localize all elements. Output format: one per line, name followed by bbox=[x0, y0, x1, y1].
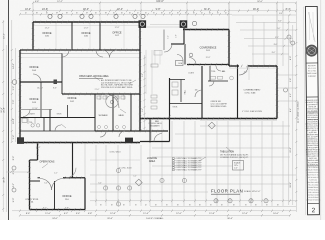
dim string y109 bbox=[20, 109, 52, 111]
svg-text:30′-4″: 30′-4″ bbox=[227, 218, 233, 220]
svg-text:8′-4″: 8′-4″ bbox=[286, 8, 291, 11]
corridor south wall west bbox=[20, 53, 62, 55]
closet north wall bbox=[170, 79, 186, 81]
svg-text:4′-6″: 4′-6″ bbox=[35, 1, 40, 3]
left band tag circle 1 bbox=[12, 166, 16, 170]
door arc toilet north bbox=[216, 66, 221, 71]
hall south partition bbox=[170, 103, 203, 105]
svg-text:OFFICE: OFFICE bbox=[29, 98, 38, 101]
bottom-left block south wall bbox=[30, 209, 86, 211]
entry interior wall y44 bbox=[171, 43, 184, 45]
west wall jog bbox=[30, 159, 38, 161]
svg-text:TOIL.: TOIL. bbox=[29, 122, 34, 124]
svg-text:REVISION: REVISION bbox=[308, 65, 316, 67]
conference east exterior wall bbox=[228, 30, 230, 67]
diagonal pencil mark in top box bbox=[308, 12, 315, 42]
svg-text:OFFICE: OFFICE bbox=[112, 31, 121, 34]
heading underline bbox=[79, 77, 103, 79]
right dimension ticks bbox=[295, 29, 297, 31]
entry tag circle bbox=[189, 53, 193, 57]
utility north wall stub bbox=[30, 180, 41, 182]
svg-text:4′-2″: 4′-2″ bbox=[54, 173, 58, 175]
washroom north wall y117.5 bbox=[20, 117, 95, 119]
office 103 door arc bbox=[33, 74, 41, 82]
joint bbox=[37, 142, 39, 145]
main south wall west portion bbox=[20, 142, 140, 144]
svg-text:1′-0″: 1′-0″ bbox=[234, 168, 238, 170]
door arc east wing room bbox=[195, 90, 202, 97]
svg-text:LUNCH: LUNCH bbox=[153, 118, 161, 120]
svg-text:4′-0″: 4′-0″ bbox=[244, 72, 248, 74]
svg-text:OFFICE BLDG: OFFICE BLDG bbox=[308, 189, 319, 191]
corridor south wall west extension bbox=[62, 130, 95, 132]
operations room walls bbox=[37, 143, 39, 161]
svg-text:46′-2″: 46′-2″ bbox=[253, 8, 259, 11]
svg-text:8′-6″: 8′-6″ bbox=[53, 87, 57, 89]
closet wall x41 bbox=[40, 82, 42, 118]
closet line 2 east of spine bbox=[151, 50, 153, 94]
svg-text:TOIL.: TOIL. bbox=[211, 71, 216, 73]
window tag circles above top wall bbox=[48, 14, 52, 18]
door arc wall y109 bbox=[23, 110, 30, 117]
lunch counter fixtures bbox=[151, 64, 158, 67]
double door arc left leaf bbox=[40, 179, 52, 191]
west wall door tag circle bbox=[12, 80, 17, 85]
bottom dimension line 1 bbox=[90, 200, 296, 202]
left band tag circle 2 bbox=[12, 188, 16, 192]
closet shelf rect bbox=[154, 51, 162, 56]
svg-text:22′-4″: 22′-4″ bbox=[117, 8, 123, 11]
double door arc right leaf bbox=[52, 179, 64, 191]
bottom dimension line 2 bbox=[150, 205, 296, 207]
svg-text:9′-0″: 9′-0″ bbox=[13, 198, 15, 203]
hall east wall x169.5 bbox=[169, 78, 171, 142]
grid leader above conference bbox=[228, 3, 230, 30]
svg-text:COATS: COATS bbox=[188, 72, 195, 75]
porch roof line 2 bbox=[147, 26, 180, 28]
conference south wall bbox=[187, 64, 229, 66]
svg-text:CONFERENCE: CONFERENCE bbox=[200, 46, 217, 49]
wall hatch ticks on exterior walls bbox=[34, 21, 35, 24]
svg-text:106: 106 bbox=[195, 90, 198, 92]
top dimension line 3 bbox=[20, 13, 232, 15]
svg-text:30′-0″: 30′-0″ bbox=[4, 177, 6, 183]
east wing sill line bbox=[200, 120, 277, 122]
svg-text:SUITE 204: SUITE 204 bbox=[309, 179, 317, 181]
restroom block north wall bbox=[62, 93, 140, 95]
svg-text:8′-6″: 8′-6″ bbox=[26, 213, 31, 215]
svg-text:8′-0″: 8′-0″ bbox=[278, 21, 282, 23]
title strip internal divider a bbox=[307, 111, 319, 113]
svg-text:26′-4″: 26′-4″ bbox=[4, 107, 6, 113]
svg-text:OFFICE: OFFICE bbox=[81, 32, 90, 35]
entry walk line 2 bbox=[159, 50, 161, 65]
svg-text:HALL: HALL bbox=[184, 90, 187, 95]
top overall dimension line bbox=[33, 2, 296, 4]
title strip faint texture above seal bbox=[308, 12, 310, 40]
top dimension tick marks bbox=[32, 10, 34, 13]
column circle large at corridor bbox=[106, 95, 118, 107]
title block divider 4 bbox=[307, 202, 319, 204]
svg-text:31′-0″: 31′-0″ bbox=[204, 8, 210, 11]
faint line left of title strip bbox=[304, 7, 306, 215]
svg-text:TEL 263-8844: TEL 263-8844 bbox=[308, 184, 318, 186]
double door arc right bbox=[110, 50, 118, 58]
svg-text:OPERATIONS: OPERATIONS bbox=[40, 160, 55, 163]
svg-text:JAN.: JAN. bbox=[221, 70, 226, 73]
interior dimension string along spine bbox=[144, 55, 146, 130]
svg-text:7′-0″: 7′-0″ bbox=[13, 100, 15, 105]
unit 1 circle bbox=[140, 22, 144, 26]
svg-text:52′-0″: 52′-0″ bbox=[257, 1, 263, 3]
svg-text:111: 111 bbox=[31, 201, 34, 203]
restroom fixtures bbox=[97, 96, 101, 99]
svg-text:12′-2″: 12′-2″ bbox=[57, 1, 63, 3]
svg-text:6′-2″: 6′-2″ bbox=[290, 93, 292, 97]
entry vestibule rect and arc bbox=[176, 61, 184, 66]
svg-text:CHECKED: CHECKED bbox=[308, 76, 317, 78]
svg-text:2′-8″: 2′-8″ bbox=[176, 34, 178, 38]
door arc above south wall bbox=[66, 168, 76, 178]
mechanical unit block 2 bbox=[180, 20, 188, 28]
svg-text:14′-6″: 14′-6″ bbox=[13, 63, 15, 69]
sheet left border line bbox=[8, 0, 10, 220]
yard west edge faint bbox=[84, 143, 86, 179]
toilet partition x210 bbox=[209, 66, 211, 81]
sheet right paper edge bbox=[320, 0, 322, 220]
svg-text:17′-10″: 17′-10″ bbox=[32, 108, 38, 110]
faint verticals top-right bbox=[276, 3, 278, 66]
top dimension ticks row1 bbox=[32, 2, 34, 5]
window centerline office 107 bbox=[123, 22, 125, 50]
svg-text:SEE FINISH SCHED.: SEE FINISH SCHED. bbox=[211, 106, 228, 108]
svg-text:18′-0″: 18′-0″ bbox=[83, 8, 89, 11]
grid leader above entry bbox=[186, 3, 188, 30]
patio west wall bbox=[237, 65, 239, 119]
svg-text:SUITE 204: SUITE 204 bbox=[309, 158, 317, 160]
top dimension line 2 bbox=[20, 10, 296, 12]
svg-text:STOR: STOR bbox=[57, 114, 62, 116]
svg-text:8′-4″: 8′-4″ bbox=[290, 108, 292, 112]
svg-text:MEN: MEN bbox=[119, 115, 124, 117]
svg-text:OFFICE BLDG: OFFICE BLDG bbox=[307, 141, 318, 143]
svg-text:5′-6″: 5′-6″ bbox=[13, 86, 15, 91]
svg-text:COVERED PATIO: COVERED PATIO bbox=[244, 88, 261, 91]
svg-text:16′-4″: 16′-4″ bbox=[36, 147, 41, 149]
door dim line NE bbox=[248, 66, 250, 80]
corridor south wall far west bbox=[20, 130, 62, 132]
west office east wall x62 bbox=[61, 54, 63, 95]
door arc men bbox=[119, 131, 125, 137]
corridor floor line bbox=[20, 57, 140, 59]
svg-text:LNDRY: LNDRY bbox=[29, 114, 36, 116]
entry walk line 1 bbox=[154, 50, 156, 65]
utility/office partition bbox=[54, 181, 56, 210]
svg-text:12′-8″: 12′-8″ bbox=[115, 27, 120, 29]
svg-text:6′-2″: 6′-2″ bbox=[64, 213, 69, 215]
left dimension line 2 bbox=[5, 45, 7, 212]
counter line lunch room bbox=[150, 120, 152, 140]
northeast wing door arc bbox=[239, 66, 248, 75]
svg-text:104′-6″ OVERALL: 104′-6″ OVERALL bbox=[146, 217, 164, 220]
svg-text:4″ CONC. SLAB W/ WWM: 4″ CONC. SLAB W/ WWM bbox=[242, 110, 262, 113]
corridor north wall / office row south wall bbox=[20, 49, 140, 51]
title block outer box bbox=[305, 6, 319, 214]
corridor south faint line bbox=[62, 53, 140, 55]
svg-text:TEL 263-8844: TEL 263-8844 bbox=[307, 110, 317, 112]
door jamb stub bbox=[38, 177, 41, 179]
svg-text:24′-0″: 24′-0″ bbox=[52, 218, 58, 220]
office 103 north wall bbox=[20, 81, 62, 83]
grid leader above office wall bbox=[99, 3, 101, 22]
svg-text:62′-8″: 62′-8″ bbox=[1, 107, 3, 113]
svg-text:OFFICE: OFFICE bbox=[42, 32, 51, 35]
svg-text:SUITE 204: SUITE 204 bbox=[308, 106, 316, 108]
corner hatch block bbox=[17, 137, 24, 144]
door arc lunch bbox=[154, 134, 162, 142]
svg-text:CONC. SLAB: CONC. SLAB bbox=[245, 91, 257, 94]
door arc toilet bbox=[209, 81, 214, 86]
washroom partition x44 bbox=[43, 118, 45, 132]
lunch room west wall bbox=[149, 119, 151, 143]
svg-text:8′-0″: 8′-0″ bbox=[272, 52, 276, 54]
grid leader above spine bbox=[140, 3, 142, 22]
restroom block south wall bbox=[95, 130, 168, 132]
tabulation sub-box bbox=[233, 161, 244, 171]
svg-text:LOADING: LOADING bbox=[147, 157, 158, 160]
svg-text:3′-4″: 3′-4″ bbox=[44, 182, 48, 184]
lunch room south wall bbox=[140, 141, 170, 143]
right dimension line 1 bbox=[288, 15, 290, 205]
detail diamonds bbox=[208, 122, 215, 129]
dimension string horizontals top-right bbox=[232, 14, 296, 16]
restroom stall lines bbox=[99, 95, 101, 100]
south wall of east wing bbox=[140, 118, 277, 120]
toilet partition y81 bbox=[208, 80, 228, 82]
window centerline office 106 bbox=[89, 22, 91, 50]
svg-text:AREA: AREA bbox=[149, 160, 156, 163]
svg-text:4′-8″: 4′-8″ bbox=[88, 213, 93, 215]
legend block with checkboxes bbox=[173, 158, 175, 160]
window sill line below top wall bbox=[33, 25, 140, 27]
door arc small room x52 bbox=[55, 125, 61, 131]
svg-text:STOR.: STOR. bbox=[173, 107, 179, 109]
title block divider 2 bbox=[306, 96, 318, 98]
svg-text:SCALE: 1/8″=1′-0″: SCALE: 1/8″=1′-0″ bbox=[244, 190, 261, 193]
svg-text:19′-8″: 19′-8″ bbox=[206, 57, 211, 59]
svg-text:10′-0″: 10′-0″ bbox=[273, 213, 279, 215]
svg-text:5′-4″: 5′-4″ bbox=[13, 135, 15, 140]
svg-text:10′-2″: 10′-2″ bbox=[25, 9, 31, 11]
left dimension ticks bbox=[2, 21, 4, 23]
svg-text:5′-0″: 5′-0″ bbox=[133, 176, 137, 178]
column grid leader verticals (south yard) bbox=[95, 145, 97, 206]
svg-text:10′-2″: 10′-2″ bbox=[4, 33, 6, 39]
interior dim line left of utility block bbox=[6, 171, 29, 173]
east wing fixtures bbox=[211, 76, 216, 79]
title block divider 3 bbox=[307, 165, 319, 167]
bottom dimension ticks bbox=[95, 200, 97, 203]
east wing west wall x202 bbox=[201, 66, 203, 119]
closet line east of spine bbox=[145, 50, 147, 94]
door arc women bbox=[100, 131, 106, 137]
svg-text:11′-4″: 11′-4″ bbox=[143, 213, 149, 215]
unit 2 circle bbox=[181, 22, 185, 26]
svg-text:12′-8″: 12′-8″ bbox=[84, 27, 89, 29]
svg-text:OFFICE: OFFICE bbox=[62, 195, 71, 198]
restroom east partition bbox=[130, 94, 132, 131]
svg-text:16′-8″: 16′-8″ bbox=[290, 182, 292, 188]
svg-text:5′-4″: 5′-4″ bbox=[76, 213, 81, 215]
svg-text:CONC. WALK: CONC. WALK bbox=[109, 151, 121, 154]
title strip internal divider b bbox=[307, 118, 319, 120]
svg-text:NO. 2 9-03: NO. 2 9-03 bbox=[308, 70, 316, 72]
door arc office 105 bbox=[62, 50, 69, 57]
mechanical unit block 1 bbox=[139, 20, 147, 28]
left dimension line outer bbox=[2, 20, 4, 212]
svg-text:BY OWNER: BY OWNER bbox=[150, 125, 160, 127]
svg-text:8′-6″: 8′-6″ bbox=[13, 156, 15, 161]
double door arc left bbox=[102, 50, 110, 58]
svg-text:6′-4″: 6′-4″ bbox=[142, 108, 144, 112]
operations east wall bbox=[72, 143, 74, 178]
restroom west wall bbox=[94, 94, 96, 131]
east exterior wall bbox=[276, 66, 278, 119]
svg-text:OFFICE: OFFICE bbox=[67, 97, 76, 100]
svg-text:FOR LINCOLN: FOR LINCOLN bbox=[307, 143, 319, 145]
left dimension line 3 bbox=[11, 20, 13, 142]
dimension string horizontals mid-right bbox=[277, 74, 296, 76]
svg-text:11′-8″: 11′-8″ bbox=[209, 213, 215, 215]
door arc office 107 bbox=[96, 50, 103, 57]
svg-text:8′-0″: 8′-0″ bbox=[290, 56, 292, 60]
exterior top wall of office row bbox=[33, 21, 140, 23]
top dimension tick marks row3 bbox=[19, 13, 21, 16]
svg-text:10′-8″: 10′-8″ bbox=[13, 118, 15, 124]
wall x50 bbox=[49, 110, 51, 132]
svg-text:12′-4″: 12′-4″ bbox=[242, 213, 248, 215]
partition x67.5 bbox=[67, 105, 69, 118]
svg-text:22′-0″: 22′-0″ bbox=[290, 147, 292, 153]
svg-text:8′-0″: 8′-0″ bbox=[142, 73, 144, 77]
conference door arc bbox=[189, 58, 196, 65]
dark stair/mech rect bbox=[125, 138, 133, 143]
office partition wall x100 bbox=[99, 22, 101, 50]
exterior west wall of office row bbox=[32, 22, 34, 50]
right dimension line 3 bbox=[295, 3, 297, 212]
svg-text:WOMEN: WOMEN bbox=[99, 115, 108, 117]
svg-text:COVERED PORCH 1,184 SQ.FT.: COVERED PORCH 1,184 SQ.FT. bbox=[220, 157, 249, 159]
entry porch wall jog bbox=[183, 28, 185, 44]
west exterior wall bbox=[19, 50, 21, 143]
leader lines bbox=[93, 76, 100, 81]
grid leader above right wall bbox=[276, 3, 278, 66]
architect seal bbox=[306, 45, 317, 56]
svg-text:16′-10″: 16′-10″ bbox=[37, 87, 43, 89]
right dimension line 2 bbox=[292, 25, 294, 205]
lower west exterior wall bbox=[29, 160, 31, 210]
office partition wall x72 bbox=[71, 22, 73, 50]
south wall segment with hatch bbox=[63, 177, 85, 179]
svg-text:24′-6″: 24′-6″ bbox=[42, 8, 48, 11]
svg-text:OPEN GEN′L OFFICE AREA: OPEN GEN′L OFFICE AREA bbox=[79, 75, 109, 78]
svg-text:12′-8″: 12′-8″ bbox=[110, 213, 116, 215]
svg-text:TEL 263-8844: TEL 263-8844 bbox=[308, 136, 318, 138]
column bubbles south yard bbox=[104, 186, 108, 190]
svg-text:104′-6″: 104′-6″ bbox=[156, 0, 164, 3]
bottom dimension line 4 bbox=[20, 214, 290, 216]
svg-text:PROVIDE R-11 SOUND BATT INSUL.: PROVIDE R-11 SOUND BATT INSUL. bbox=[101, 86, 134, 89]
svg-text:8′-0″: 8′-0″ bbox=[279, 13, 283, 15]
porch roof line 1 bbox=[150, 24, 180, 26]
title block divider 1 bbox=[306, 62, 318, 64]
closet east wall bbox=[180, 80, 182, 103]
entry west wall (medium) bbox=[163, 30, 165, 51]
svg-text:13′-4″: 13′-4″ bbox=[45, 27, 50, 29]
svg-text:▪ EXIST WALL TO REMAIN TYP: ▪ EXIST WALL TO REMAIN TYP bbox=[176, 169, 203, 172]
northeast wing sill line bbox=[229, 67, 277, 69]
column circle at corridor arc bbox=[110, 100, 113, 103]
grid leader above left wall bbox=[32, 3, 34, 22]
left dimension line 4 bbox=[15, 48, 17, 142]
main spine wall x140 bbox=[139, 22, 141, 131]
hall closet fixtures bbox=[172, 82, 178, 87]
restroom partition bbox=[112, 94, 114, 131]
svg-text:TEL 263-8844: TEL 263-8844 bbox=[308, 162, 318, 164]
svg-text:NO. 1 8-12: NO. 1 8-12 bbox=[308, 68, 316, 70]
svg-text:9′-6″: 9′-6″ bbox=[290, 78, 292, 82]
conference west wall bbox=[184, 44, 186, 65]
svg-text:8′-0″: 8′-0″ bbox=[277, 28, 281, 30]
svg-text:OFFICE: OFFICE bbox=[29, 66, 38, 69]
svg-text:FLOOR PLAN: FLOOR PLAN bbox=[211, 189, 243, 194]
northeast wing north wall east part bbox=[248, 65, 277, 67]
tick slashes and texts on stepped dim lines bbox=[289, 14, 291, 16]
entry door arc bbox=[164, 44, 172, 52]
svg-text:20′-6″: 20′-6″ bbox=[107, 218, 113, 220]
bottom-left block east wall bbox=[84, 178, 86, 210]
svg-text:FOR LINCOLN: FOR LINCOLN bbox=[308, 192, 320, 194]
conference north wall bbox=[183, 29, 229, 31]
large door arc restroom corridor bbox=[105, 94, 119, 108]
svg-text:24′-6″ VERIFY IN FIELD: 24′-6″ VERIFY IN FIELD bbox=[298, 101, 300, 123]
tag circle near entry bbox=[192, 21, 196, 25]
svg-text:21′-0″: 21′-0″ bbox=[95, 89, 100, 91]
right window tag circles bbox=[287, 35, 291, 39]
svg-text:9′-8″: 9′-8″ bbox=[156, 8, 161, 11]
bottom dimension line 3 bbox=[12, 210, 296, 212]
faint horizontals in south-east yard bbox=[200, 125, 290, 127]
window centerline office 105 bbox=[55, 22, 57, 50]
svg-text:TABULATION: TABULATION bbox=[220, 151, 234, 154]
svg-text:11′-0″: 11′-0″ bbox=[45, 213, 51, 215]
svg-text:5′-4″: 5′-4″ bbox=[168, 35, 170, 39]
toilet fixtures west washroom bbox=[27, 118, 29, 124]
svg-text:SUITE 204: SUITE 204 bbox=[309, 132, 317, 134]
svg-text:OFFICE BLDG: OFFICE BLDG bbox=[307, 115, 318, 117]
svg-text:2: 2 bbox=[312, 207, 316, 214]
svg-text:12′-0″: 12′-0″ bbox=[176, 213, 182, 215]
northeast wing north wall west part bbox=[229, 65, 239, 67]
dark jamb block near wall y82 bbox=[54, 80, 58, 85]
svg-text:FOR LINCOLN: FOR LINCOLN bbox=[307, 117, 319, 119]
